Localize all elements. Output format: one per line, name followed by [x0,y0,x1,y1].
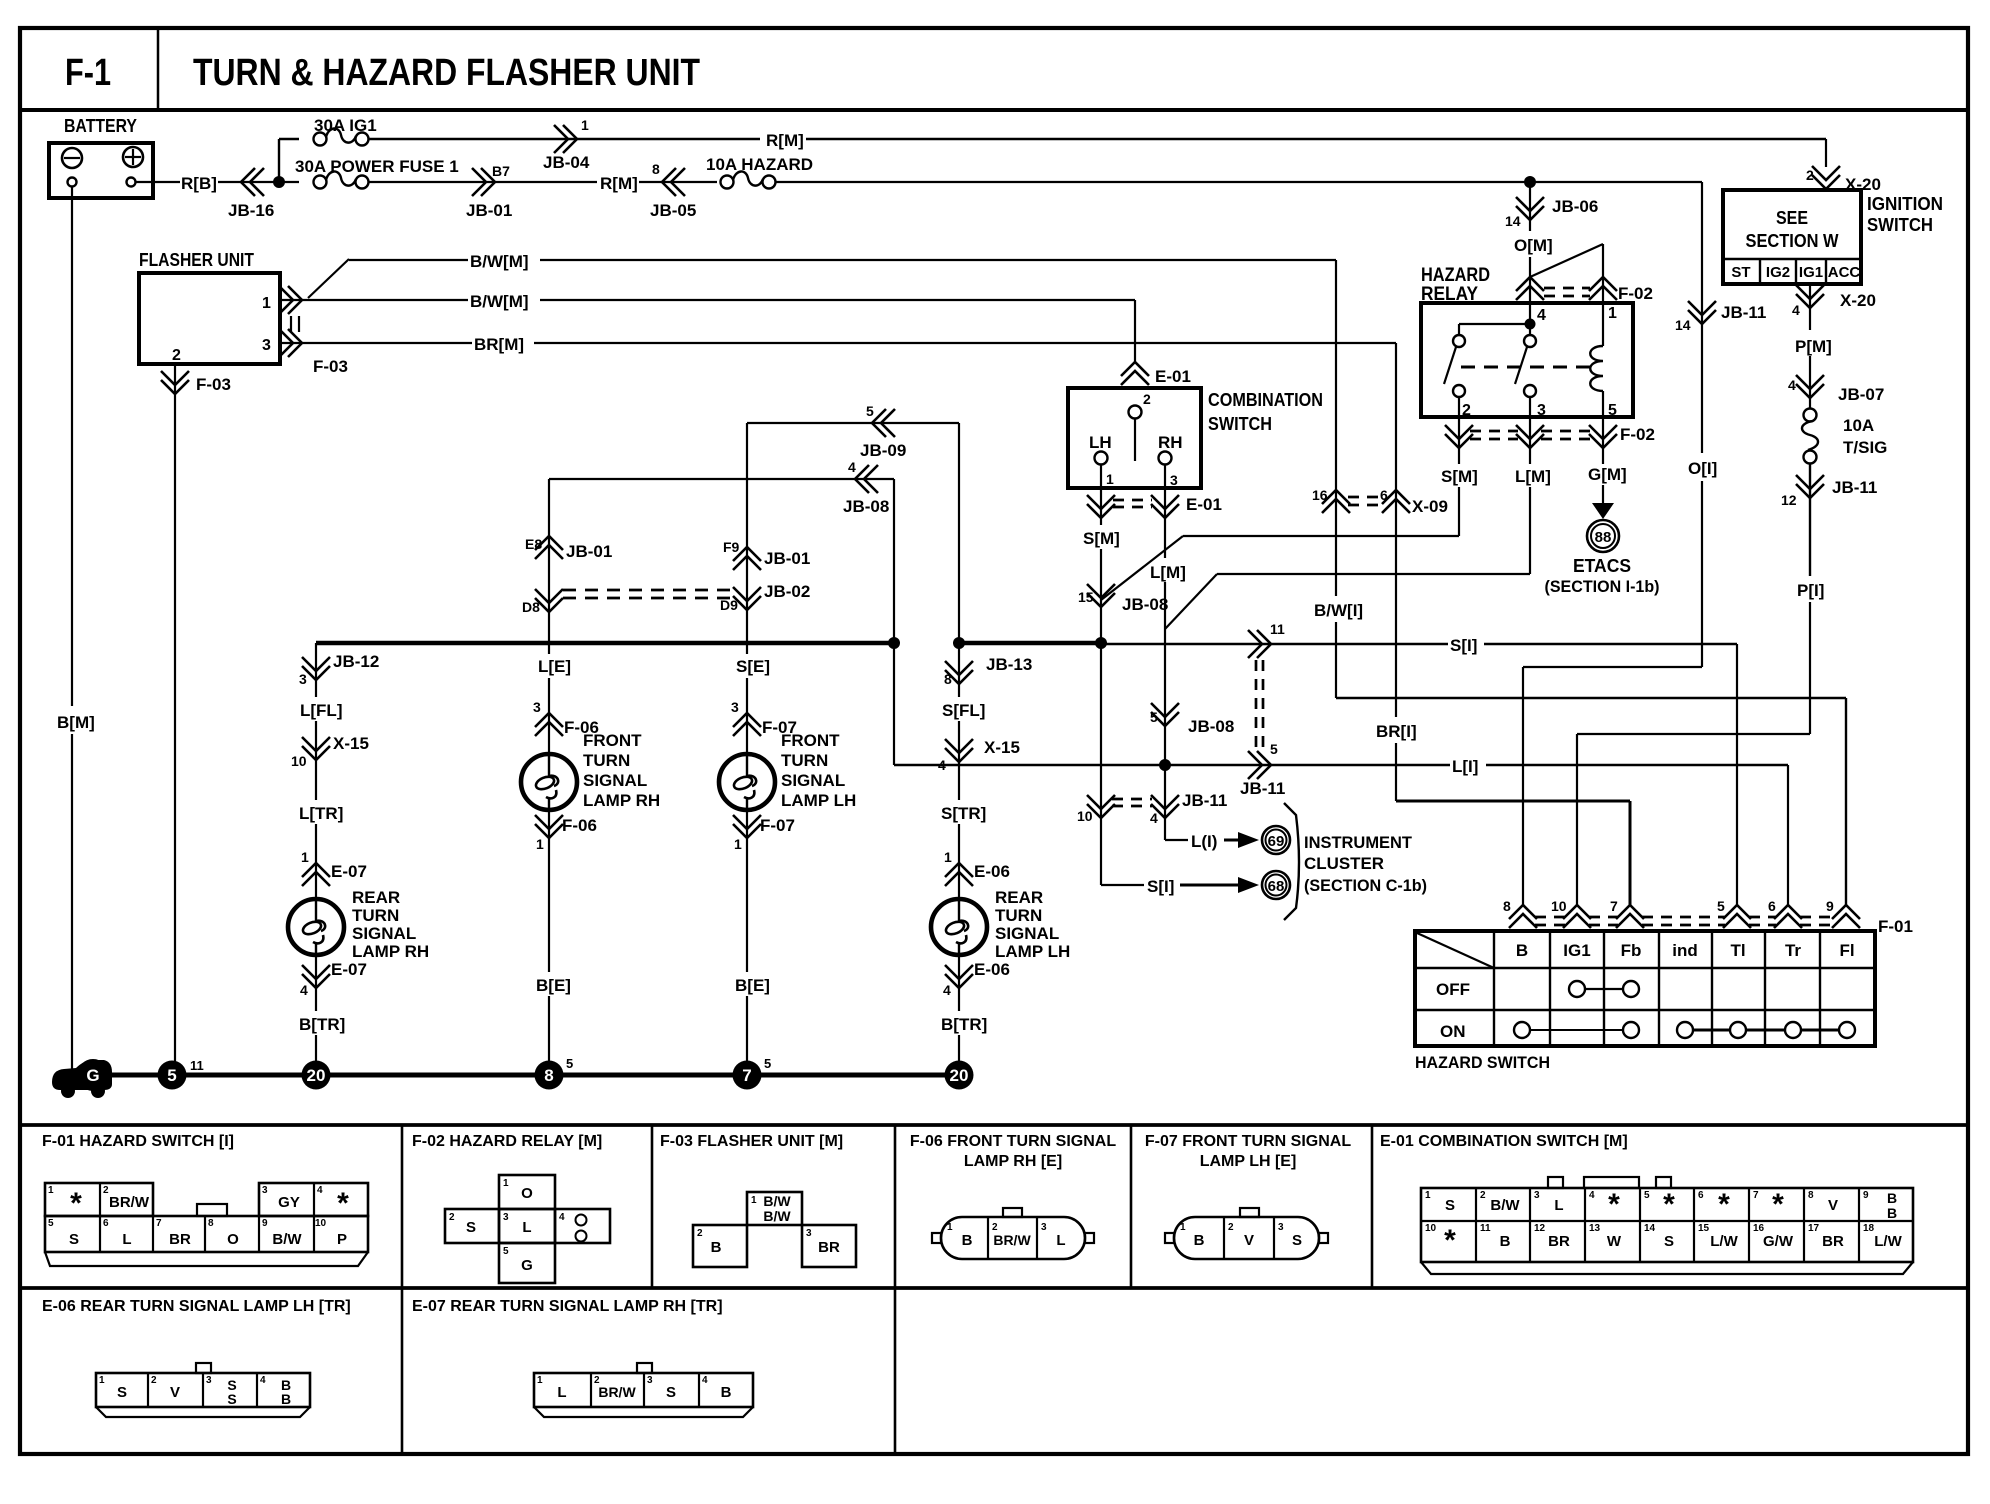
svg-text:9: 9 [262,1218,268,1229]
svg-text:8: 8 [208,1218,214,1229]
svg-text:3: 3 [206,1375,212,1386]
svg-text:(SECTION C-1b): (SECTION C-1b) [1304,876,1427,895]
connector JB-11 pin 12 [1796,484,1824,498]
svg-text:JB-07: JB-07 [1838,385,1884,404]
svg-text:LAMP LH: LAMP LH [781,791,856,810]
svg-text:E-06: E-06 [974,862,1010,881]
svg-text:IG2: IG2 [1766,264,1790,281]
svg-text:3: 3 [533,699,541,715]
svg-text:7: 7 [1753,1190,1759,1201]
node L[I] junction [1159,759,1171,771]
svg-text:IGNITION: IGNITION [1867,194,1943,214]
svg-text:F-02: F-02 [1618,284,1653,303]
wire L(I) to instrument cluster 69 [1165,839,1188,841]
connector JB-01 pin F9 [733,547,761,561]
svg-text:L[E]: L[E] [538,657,571,676]
wire S net bus right [959,641,1101,646]
svg-text:B: B [711,1239,722,1256]
svg-text:3: 3 [1278,1222,1284,1233]
svg-text:1: 1 [734,836,742,852]
svg-text:L: L [557,1384,566,1401]
ground 20 right [945,1061,974,1090]
svg-text:INSTRUMENT: INSTRUMENT [1304,833,1413,852]
svg-text:ACC: ACC [1828,264,1861,281]
svg-text:JB-01: JB-01 [466,201,512,220]
svg-text:SECTION W: SECTION W [1746,231,1839,251]
wire R[M] down to ignition switch [1825,139,1827,167]
connector JB-12 pin 3 [302,666,330,680]
svg-text:2: 2 [449,1212,455,1223]
relay contact middle [1524,335,1536,347]
svg-text:BR[I]: BR[I] [1376,722,1417,741]
svg-text:*: * [1663,1188,1675,1221]
svg-text:L: L [1554,1197,1563,1214]
svg-text:12: 12 [1534,1223,1546,1234]
svg-text:3: 3 [647,1375,653,1386]
svg-text:CLUSTER: CLUSTER [1304,854,1384,873]
svg-text:B[E]: B[E] [735,976,770,995]
svg-text:JB-08: JB-08 [843,497,889,516]
svg-text:B7: B7 [492,163,510,179]
svg-text:(SECTION I-1b): (SECTION I-1b) [1545,577,1660,596]
wire branch up to IG1 fuse [278,139,280,182]
connector X-20 pin 4 below [1796,294,1824,308]
svg-text:HAZARD SWITCH: HAZARD SWITCH [1415,1053,1550,1072]
wire comb switch RH L[M] down [1164,464,1166,558]
svg-text:L(I): L(I) [1191,832,1217,851]
connector F-06 pin 3 [535,713,563,727]
svg-text:S[E]: S[E] [736,657,770,676]
svg-text:B: B [1887,1190,1897,1206]
svg-text:F-06: F-06 [562,816,597,835]
svg-text:B/W[I]: B/W[I] [1314,601,1363,620]
svg-text:BR[M]: BR[M] [474,335,524,354]
svg-text:S[I]: S[I] [1147,877,1174,896]
hazard switch table [1415,931,1875,1046]
wire P[M] from ignition switch down [1809,284,1811,330]
svg-text:4: 4 [317,1185,323,1196]
connector JB-04 pin 1 [563,125,577,153]
svg-text:7: 7 [1610,898,1618,914]
svg-text:JB-02: JB-02 [764,582,810,601]
svg-text:4: 4 [848,459,856,475]
wire S[I] line [1101,643,1448,645]
connector JB-13 pin 8 [945,670,973,684]
svg-text:88: 88 [1595,529,1612,546]
svg-text:O[M]: O[M] [1514,236,1553,255]
svg-text:X-09: X-09 [1412,497,1448,516]
svg-text:BR/W: BR/W [598,1384,636,1400]
title bar F-1 cell divider [157,28,160,110]
svg-text:3: 3 [731,699,739,715]
ground 5 [158,1061,187,1090]
connector E-07 pin 1 [302,863,330,877]
svg-text:F-02 HAZARD RELAY [M]: F-02 HAZARD RELAY [M] [412,1133,602,1150]
svg-text:7: 7 [156,1218,162,1229]
dashed link JB-11 vertical pair [1255,660,1258,748]
svg-text:F-01 HAZARD SWITCH [I]: F-01 HAZARD SWITCH [I] [42,1133,234,1150]
svg-text:JB-12: JB-12 [333,652,379,671]
connector JB-05 pin 8 [662,168,676,196]
connector X-15 pin 4 [945,748,973,762]
svg-text:F-03: F-03 [313,357,348,376]
svg-text:D8: D8 [522,599,540,615]
svg-text:S: S [466,1219,476,1236]
lamp front turn signal LH [719,754,775,810]
relay contact left [1453,335,1465,347]
svg-text:F9: F9 [723,539,740,555]
svg-text:8: 8 [652,161,660,177]
svg-text:JB-01: JB-01 [566,542,612,561]
svg-text:JB-11: JB-11 [1182,791,1227,810]
svg-text:JB-16: JB-16 [228,201,274,220]
svg-text:B[TR]: B[TR] [299,1015,345,1034]
svg-text:COMBINATION: COMBINATION [1208,390,1323,410]
svg-text:S: S [1292,1232,1302,1249]
connector E-01 pin 1 below [1087,504,1115,518]
svg-text:B: B [1887,1205,1897,1221]
wire L[M] relay to comb switch [1529,487,1531,574]
svg-text:S[FL]: S[FL] [942,701,985,720]
dashed link F-02 bottom [1470,430,1518,433]
svg-text:SIGNAL: SIGNAL [781,771,845,790]
connector JB-02 pin D8 [535,598,563,612]
svg-text:B/W: B/W [763,1193,791,1209]
svg-text:2: 2 [1462,402,1471,419]
svg-text:TURN: TURN [995,906,1042,925]
wire S[FL]/S[TR] vertical rear lamp LH [958,643,960,697]
svg-text:L[M]: L[M] [1515,467,1551,486]
wire B/W[I] vertical [1335,260,1337,596]
svg-text:4: 4 [559,1212,565,1223]
junction node fuse feed [273,176,285,188]
dashed link JB-11 pair [1112,798,1152,801]
svg-text:F-03: F-03 [196,375,231,394]
svg-text:E-01 COMBINATION SWITCH [M]: E-01 COMBINATION SWITCH [M] [1380,1133,1628,1150]
connector X-20 pin 2 [1812,175,1840,189]
svg-text:S: S [1664,1233,1674,1250]
svg-text:L: L [122,1231,131,1248]
svg-text:5: 5 [503,1246,509,1257]
ground bus [60,1073,958,1078]
svg-text:3: 3 [1537,402,1546,419]
connector F-06 pin 1 [535,824,563,838]
svg-text:E-07: E-07 [331,960,367,979]
svg-text:TURN & HAZARD FLASHER UNIT: TURN & HAZARD FLASHER UNIT [193,52,700,94]
svg-text:JB-04: JB-04 [543,153,590,172]
svg-text:4: 4 [1589,1190,1595,1201]
svg-text:TURN: TURN [352,906,399,925]
connector F-07 pin 1 [733,824,761,838]
svg-text:B: B [962,1232,973,1249]
wire R[M] to O[I] branch [776,181,1702,183]
svg-text:B: B [721,1384,732,1401]
svg-text:5: 5 [1608,402,1617,419]
svg-text:9: 9 [1826,898,1834,914]
wire O[I] from R[M] down to hazard switch B [1701,182,1703,453]
ground 7 [733,1061,762,1090]
svg-text:O[I]: O[I] [1688,459,1717,478]
svg-text:1: 1 [262,295,271,312]
connector X-15 pin 10 [302,746,330,760]
connector JB-08 pin 4 chevron [855,465,869,493]
connector JB-01 pin B7 [481,168,495,196]
svg-text:8: 8 [544,1066,553,1085]
wire JB-09 loop horizontal [747,422,959,424]
svg-text:1: 1 [1180,1222,1186,1233]
svg-text:1: 1 [48,1185,54,1196]
svg-text:2: 2 [697,1228,703,1239]
connector JB-02 pin D9 [733,596,761,610]
wire S[I] down to Tl column [1736,644,1738,905]
svg-text:S: S [117,1384,127,1401]
svg-text:BR: BR [1822,1233,1844,1250]
svg-text:4: 4 [1792,302,1800,318]
ignition switch box [1723,190,1861,284]
wire P[I] horizontal to IG1 column [1577,733,1810,735]
table diagonal [1417,933,1494,968]
svg-text:8: 8 [1503,898,1511,914]
wire L[E] vertical front lamp RH [548,479,550,654]
svg-text:F-07 FRONT TURN SIGNAL: F-07 FRONT TURN SIGNAL [1145,1133,1351,1150]
svg-text:IG1: IG1 [1563,941,1590,960]
hazard switch OFF contacts [1569,981,1585,997]
svg-text:8: 8 [944,671,952,687]
connector E-07 pin 4 [302,974,330,988]
svg-text:*: * [1718,1188,1730,1221]
dashed link F-02 top [1544,287,1590,290]
svg-text:*: * [1608,1188,1620,1221]
ETACS circle 88 [1587,520,1619,552]
wire G[M] to ETACS [1602,485,1604,503]
lamp rear turn signal RH [288,899,344,955]
svg-text:B[E]: B[E] [536,976,571,995]
wire S[I] to instrument cluster 68 [1101,884,1144,886]
svg-text:B: B [281,1391,291,1407]
node S bus to JB-09 loop [953,637,965,649]
svg-text:BR: BR [169,1231,191,1248]
svg-text:V: V [170,1384,180,1401]
connector F-02 pin 5 below [1602,417,1604,464]
wire battery positive R[B] to fuse node [136,181,180,183]
svg-text:L[I]: L[I] [1452,757,1478,776]
svg-text:B[TR]: B[TR] [941,1015,987,1034]
instrument cluster circle 69 [1262,826,1290,854]
wire BR[I] vertical [1395,343,1397,717]
svg-text:Tl: Tl [1730,941,1745,960]
svg-text:O: O [227,1231,239,1248]
svg-text:1: 1 [947,1222,953,1233]
connector F-01 pinout [45,1183,153,1216]
svg-text:6: 6 [103,1218,109,1229]
svg-text:LAMP LH: LAMP LH [995,942,1070,961]
svg-text:7: 7 [742,1066,751,1085]
svg-text:G/W: G/W [1763,1233,1794,1250]
svg-text:1: 1 [537,1375,543,1386]
connector F-06 pinout [941,1217,1085,1259]
svg-text:5: 5 [764,1056,771,1071]
svg-text:6: 6 [1768,898,1776,914]
svg-text:JB-06: JB-06 [1552,197,1598,216]
svg-text:JB-11: JB-11 [1721,303,1766,322]
svg-text:SWITCH: SWITCH [1208,414,1272,434]
connector F-02 pin 3 below [1529,417,1531,464]
svg-text:L: L [1056,1232,1065,1249]
svg-text:REAR: REAR [352,888,400,907]
svg-text:1: 1 [1608,305,1617,322]
svg-text:V: V [1244,1232,1254,1249]
svg-text:14: 14 [1505,213,1521,229]
svg-text:GY: GY [278,1194,300,1211]
svg-text:LAMP RH: LAMP RH [583,791,660,810]
svg-text:Tr: Tr [1785,941,1801,960]
svg-text:5: 5 [1644,1190,1650,1201]
svg-text:5: 5 [566,1056,573,1071]
fuse 10A T/SIG [1804,409,1817,422]
svg-text:JB-11: JB-11 [1832,478,1877,497]
wire comb switch LH S[M] down [1100,464,1102,525]
wire comb switch pin2 feed [1134,300,1136,362]
svg-text:E-06 REAR TURN SIGNAL LAMP LH: E-06 REAR TURN SIGNAL LAMP LH [TR] [42,1298,351,1315]
svg-text:3: 3 [1534,1190,1540,1201]
svg-text:W: W [1607,1233,1622,1250]
svg-text:1: 1 [503,1178,509,1189]
wire JB-06 branch O[M] [1524,176,1536,188]
svg-text:2: 2 [1143,391,1151,407]
connector E-06 pin 4 [945,974,973,988]
svg-text:SIGNAL: SIGNAL [583,771,647,790]
svg-text:10: 10 [1425,1223,1437,1234]
svg-text:10: 10 [315,1218,327,1229]
svg-text:*: * [337,1187,349,1220]
connector JB-06 pin 14 [1516,206,1544,220]
connector JB-11 pin 4 [1151,804,1179,818]
hazard switch ON contacts [1514,1022,1530,1038]
svg-text:B/W[M]: B/W[M] [470,252,529,271]
connector JB-11 pin 14 right [1688,310,1716,324]
svg-text:5: 5 [866,403,874,419]
svg-text:17: 17 [1808,1223,1820,1234]
svg-text:8: 8 [1808,1190,1814,1201]
svg-text:F-1: F-1 [65,52,111,94]
svg-text:R[M]: R[M] [600,174,638,193]
svg-text:6: 6 [1380,487,1388,503]
svg-text:4: 4 [260,1375,266,1386]
connector F-02 pin 4 top [1516,277,1544,291]
svg-text:14: 14 [1675,317,1691,333]
dashed link X-09 pair [1348,496,1384,499]
svg-text:TURN: TURN [781,751,828,770]
wire L[I] line [893,643,895,765]
svg-text:B/W: B/W [763,1208,791,1224]
lamp rear turn signal LH [931,899,987,955]
wire L[I] down to Tr column [1787,765,1789,905]
svg-text:3: 3 [1041,1222,1047,1233]
svg-text:3: 3 [806,1228,812,1239]
svg-text:L/W: L/W [1710,1233,1738,1250]
svg-text:1: 1 [944,849,952,865]
ground 8 [535,1061,564,1090]
wire S[M] relay to comb switch [1458,487,1460,536]
svg-text:Fb: Fb [1621,941,1642,960]
svg-text:2: 2 [1480,1190,1486,1201]
svg-text:LAMP LH [E]: LAMP LH [E] [1200,1153,1297,1170]
svg-text:B: B [1500,1233,1511,1250]
connector JB-08 pin 15 [1087,593,1115,607]
car body icon [52,1060,112,1090]
svg-text:11: 11 [1480,1223,1491,1234]
svg-text:S[TR]: S[TR] [941,804,986,823]
svg-text:BR: BR [818,1239,840,1256]
svg-text:10A: 10A [1843,416,1874,435]
svg-text:F-07: F-07 [760,816,795,835]
svg-text:E-07: E-07 [331,862,367,881]
svg-text:1: 1 [301,849,309,865]
relay dashed actuator line [1461,366,1597,369]
wire dashed link D8-D9 [563,589,733,592]
svg-text:E8: E8 [525,536,542,552]
svg-text:P[I]: P[I] [1797,581,1824,600]
svg-text:E-07 REAR TURN SIGNAL LAMP RH: E-07 REAR TURN SIGNAL LAMP RH [TR] [412,1298,723,1315]
svg-text:BR/W: BR/W [993,1232,1031,1248]
svg-text:F-06 FRONT TURN SIGNAL: F-06 FRONT TURN SIGNAL [910,1133,1116,1150]
svg-text:SIGNAL: SIGNAL [995,924,1059,943]
hazard relay box [1421,303,1633,417]
connector JB-07 pin 4 [1796,384,1824,398]
svg-text:S: S [666,1384,676,1401]
svg-text:L/W: L/W [1874,1233,1902,1250]
svg-text:F-01: F-01 [1878,917,1913,936]
wire battery negative B[M] down to ground [71,187,73,706]
connector X-09 pin 16 [1322,490,1350,504]
svg-text:4: 4 [1537,307,1546,324]
svg-text:X-15: X-15 [333,734,369,753]
svg-text:18: 18 [1863,1223,1875,1234]
svg-text:T/SIG: T/SIG [1843,438,1887,457]
svg-text:X-15: X-15 [984,738,1020,757]
svg-text:5: 5 [167,1066,176,1085]
svg-text:ON: ON [1440,1022,1466,1041]
svg-text:L[TR]: L[TR] [299,804,343,823]
wire BR[I] horizontal to Fb [1396,800,1630,803]
wire flasher pin 2 down to ground [174,364,176,1075]
connector E-01 pin 3 below [1151,504,1179,518]
svg-text:D9: D9 [720,597,738,613]
svg-text:10: 10 [291,753,307,769]
svg-text:2: 2 [1228,1222,1234,1233]
svg-text:R[M]: R[M] [766,131,804,150]
svg-text:SWITCH: SWITCH [1867,215,1933,235]
wire JB-08 loop horizontal [549,478,894,480]
dashed link F-01 row [1535,916,1565,919]
svg-text:4: 4 [702,1375,708,1386]
svg-text:16: 16 [1312,487,1328,503]
svg-text:5: 5 [48,1218,54,1229]
svg-text:Fl: Fl [1839,941,1854,960]
svg-text:R[B]: R[B] [181,174,217,193]
svg-text:S[M]: S[M] [1441,467,1478,486]
wire B/W[M] line1 [349,259,468,261]
panel grid [20,1123,1968,1127]
svg-text:S: S [1445,1197,1455,1214]
svg-text:5: 5 [1717,898,1725,914]
connector JB-11 pin 11 [1257,630,1271,658]
title bar divider line [20,108,1968,112]
svg-text:2: 2 [172,347,181,364]
svg-text:JB-08: JB-08 [1188,717,1234,736]
svg-text:3: 3 [503,1212,509,1223]
wire S[E] vertical front lamp LH [746,423,748,654]
